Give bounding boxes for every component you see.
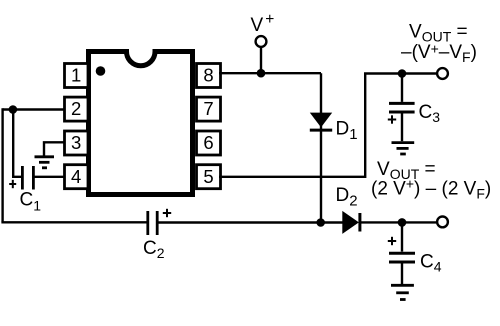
wire D2 to Vout2	[360, 221, 437, 223]
wire Vout1 to C3	[401, 74, 403, 102]
C1 plus sign	[9, 180, 16, 188]
pin 4	[65, 165, 89, 189]
C4 plus sign	[388, 237, 396, 245]
Vout1 terminal circle	[437, 68, 448, 79]
wire D1 branch vertical	[320, 73, 322, 222]
capacitor C2 left plate	[146, 211, 149, 235]
wire pin3 to ground	[44, 142, 64, 155]
node junction dot Vout2	[398, 218, 407, 227]
wire pin8 to D1 branch	[219, 72, 321, 74]
ground symbol at C4	[391, 285, 414, 299]
wire V+ stub	[260, 47, 262, 73]
svg-text:6: 6	[203, 132, 213, 153]
capacitor C4 bottom plate	[389, 261, 415, 264]
wire C1 to pin 4	[33, 176, 64, 178]
ground symbol at pin 3	[35, 157, 55, 168]
pin 1	[65, 64, 89, 88]
pin 7	[197, 97, 221, 121]
svg-text:7: 7	[203, 98, 213, 119]
ground symbol at C3	[392, 143, 415, 154]
wire pin5 to output node	[219, 74, 437, 177]
IC U1 body	[89, 52, 193, 195]
diode D1	[310, 113, 332, 131]
svg-text:4: 4	[71, 166, 81, 187]
Vout2 terminal circle	[437, 217, 448, 228]
wire left rail down	[1, 108, 3, 222]
node junction dot pin2/C1	[9, 105, 18, 114]
pin 8	[197, 64, 221, 88]
svg-text:(2 V+) – (2 VF): (2 V+) – (2 VF)	[371, 176, 491, 202]
pin 2	[65, 97, 89, 121]
capacitor C1 left plate	[21, 166, 24, 190]
svg-text:1: 1	[71, 65, 81, 86]
pin 1 marker dot	[96, 66, 106, 76]
capacitor C3 bottom plate	[389, 111, 415, 114]
wire junction down to C1	[13, 110, 22, 177]
node junction dot D1/D2	[316, 218, 325, 227]
node junction dot Vout1	[398, 69, 407, 78]
capacitor C4 top plate	[389, 252, 415, 255]
C3 plus sign	[388, 115, 396, 123]
wire C4 to ground	[401, 264, 403, 285]
wire Vout2 to C4	[401, 222, 403, 251]
svg-text:5: 5	[203, 166, 213, 187]
wire bottom rail left segment	[1, 221, 146, 223]
capacitor C1 right plate	[32, 166, 35, 190]
V+ terminal circle	[256, 36, 267, 47]
wire bottom rail right segment	[158, 221, 343, 223]
pin 5	[197, 165, 221, 189]
svg-text:3: 3	[71, 132, 81, 153]
diode D2	[342, 211, 360, 234]
wire C3 to ground	[401, 114, 403, 142]
capacitor C3 top plate	[389, 102, 415, 105]
pin 3	[65, 131, 89, 155]
svg-text:8: 8	[203, 65, 213, 86]
C2 plus sign	[163, 209, 171, 217]
svg-text:2: 2	[71, 98, 81, 119]
wire pin2 to left rail	[3, 108, 64, 110]
node junction dot V+	[257, 69, 266, 78]
pin 6	[197, 131, 221, 155]
capacitor C2 right plate	[156, 211, 159, 235]
